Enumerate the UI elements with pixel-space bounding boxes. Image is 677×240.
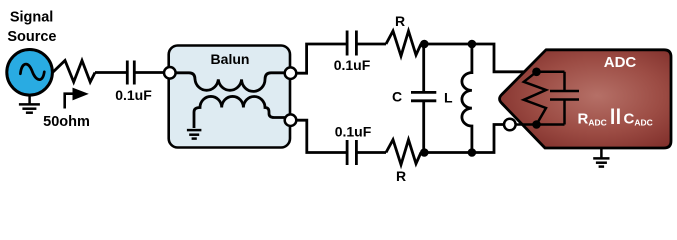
svg-text:0.1uF: 0.1uF [115,87,152,103]
resistor 50ohm [53,61,96,83]
arrow (source impedance) [65,88,89,109]
ADC body U1 [500,50,671,148]
svg-text:R: R [395,13,405,29]
junction (top rail L) [468,40,477,49]
balun primary winding [171,73,288,92]
wire (top rail) [421,44,533,72]
junction (bottom rail L) [468,148,477,157]
capacitor 0.1uF (top) [347,31,356,56]
terminal (balun left) [164,67,176,79]
ground (ADC) [593,148,609,167]
capacitor C (shunt) [411,44,436,153]
wire (top branch from balun) [296,44,347,73]
ground (balun) [187,130,202,139]
svg-text:R: R [396,168,406,184]
balun box [169,46,290,148]
wire [356,151,386,154]
wire (ADC top internal) [533,71,565,74]
terminal (balun right top) [285,67,297,79]
svg-text:L: L [444,90,453,106]
resistor R (top) [386,31,421,56]
capacitor 0.1uF (input) [127,61,134,85]
wire [356,43,386,46]
balun secondary winding [194,96,287,128]
ground (signal source) [19,95,40,113]
signal source V1 [7,50,53,96]
resistor R (bottom) [386,140,421,165]
svg-text:0.1uF: 0.1uF [334,57,371,73]
wire [95,71,126,74]
wire (ADC bottom input) [505,123,565,126]
wire (bottom branch from balun) [296,120,347,152]
inductor L (shunt) [462,44,472,153]
terminal (ADC bottom input) [504,119,516,131]
label parallel bars [613,109,619,125]
junction (ADC bottom) [532,120,541,129]
svg-text:Balun: Balun [211,51,250,67]
junction (ADC top) [532,68,541,77]
svg-text:C: C [392,89,402,105]
junction (bottom rail C) [420,148,429,157]
capacitor CADC (internal) [550,72,579,125]
svg-text:Signal: Signal [10,9,54,25]
svg-text:50ohm: 50ohm [43,114,90,130]
wire [134,71,164,74]
svg-text:0.1uF: 0.1uF [335,124,372,140]
capacitor 0.1uF (bottom) [347,140,356,165]
wire (bottom rail) [421,125,505,153]
resistor RADC (internal, vertical) [524,72,546,125]
terminal (balun right bottom) [285,114,297,126]
sine symbol [20,64,44,80]
svg-text:Source: Source [7,29,56,45]
junction (top rail C) [420,40,429,49]
svg-text:ADC: ADC [604,54,637,71]
